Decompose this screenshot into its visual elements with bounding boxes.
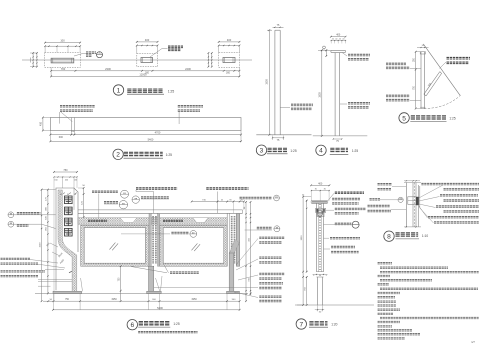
label B + circle2 circle3 (104, 196, 139, 209)
svg-text:1:20: 1:20 (331, 322, 337, 326)
marker node (398, 197, 403, 202)
title 7 (296, 319, 338, 329)
svg-text:50: 50 (332, 39, 334, 41)
glass leader text (131, 264, 199, 273)
tick row below column top (60, 193, 77, 196)
label F right + circle (240, 195, 280, 201)
dim stack left of box3 (208, 52, 213, 68)
svg-text:1500: 1500 (39, 242, 41, 248)
svg-text:700: 700 (61, 67, 66, 71)
leader label left drawing2 (59, 106, 95, 123)
leader label right drawing2 (178, 106, 203, 124)
bolt bracket under cap (316, 208, 334, 216)
R labels on curve (45, 242, 72, 273)
svg-text:1800: 1800 (301, 235, 303, 241)
dim 750 top column (53, 169, 78, 188)
svg-text:400: 400 (145, 38, 150, 42)
leader label box1 (74, 53, 96, 56)
detail marker A (97, 51, 103, 58)
svg-text:30: 30 (74, 194, 76, 196)
right labels drawing8 (419, 184, 479, 223)
svg-text:1:25: 1:25 (168, 90, 175, 94)
top label text D (136, 187, 177, 190)
node element verticals (406, 183, 420, 227)
column hatched strip + S curve (58, 190, 77, 292)
dims left drawing7 (297, 195, 311, 306)
cap leader (328, 193, 334, 201)
weld marker drawing4 (323, 46, 326, 50)
svg-text:12000: 12000 (139, 73, 147, 77)
title 2 (113, 149, 172, 159)
right post (227, 213, 240, 266)
node box2-dashed (137, 53, 158, 66)
svg-text:1950: 1950 (111, 298, 117, 301)
middle post (149, 213, 160, 266)
svg-text:400: 400 (318, 182, 323, 185)
dim stack left of box1 (30, 52, 38, 68)
base plate mid (147, 291, 162, 293)
dims left drawing4 (318, 49, 331, 136)
dim 700 mid legs (119, 265, 122, 302)
dim 1800 left drawing3 (265, 29, 272, 135)
dim row1 drawing2 (50, 131, 242, 142)
leader label drawing3 (280, 105, 313, 109)
leader verticals from top labels (99, 190, 218, 225)
svg-text:1/7: 1/7 (471, 340, 475, 344)
svg-text:1:25: 1:25 (290, 149, 296, 153)
ground drawing3 (256, 134, 311, 136)
rail body drawing2 (50, 118, 241, 131)
dim total drawing2 (50, 137, 242, 142)
dim 30 below drawing7 (315, 305, 324, 314)
label G right + circle (245, 226, 280, 232)
svg-text:100: 100 (60, 39, 65, 43)
dim 750 left drawing5 (414, 51, 421, 110)
glass mark P2 (192, 243, 201, 251)
dim 100 above box1 (44, 39, 81, 53)
leader labels left drawing5 (386, 64, 421, 100)
node box1-dashed (45, 53, 81, 68)
title 3 (256, 145, 297, 155)
label A + circle1 (92, 190, 129, 198)
brace bar (424, 72, 442, 96)
right diagonal wedge (229, 240, 239, 255)
swing arc dashed (424, 95, 461, 108)
svg-text:450: 450 (40, 121, 43, 126)
svg-text:6: 6 (130, 322, 134, 329)
svg-text:400: 400 (227, 38, 232, 42)
dim row under drawing1 (50, 67, 240, 77)
dim left drawing2 (40, 117, 51, 132)
dim 400 above box3 (218, 38, 241, 53)
svg-text:600: 600 (59, 136, 64, 139)
title 5 (399, 113, 456, 123)
cap plate drawing7 (311, 201, 328, 204)
dim 75 below drawing3 (272, 136, 284, 142)
svg-text:1:25: 1:25 (449, 117, 455, 121)
svg-text:750: 750 (63, 169, 68, 172)
dim 75 below drawing4 (333, 138, 343, 143)
dim row1 drawing6 (43, 294, 241, 311)
svg-text:1:25: 1:25 (173, 322, 179, 326)
post drawing4 (335, 53, 340, 136)
label in P2 + circle (121, 231, 197, 238)
svg-text:7: 7 (299, 321, 303, 328)
svg-text:5400: 5400 (148, 137, 154, 141)
column outline (54, 177, 78, 301)
index circle left2 (8, 221, 56, 228)
post drawing5 (420, 52, 425, 109)
svg-text:8: 8 (387, 234, 391, 241)
svg-text:1: 1 (117, 87, 121, 94)
dim stack right drawing6 (244, 201, 251, 302)
svg-text:50: 50 (335, 39, 337, 41)
ground drawing4 (313, 135, 368, 137)
svg-text:5400: 5400 (157, 306, 163, 310)
top label text E (206, 187, 248, 190)
panel P2 (160, 225, 227, 266)
dim stack left drawing6 (39, 189, 55, 302)
cap plate drawing4 (331, 50, 346, 52)
vertical sign text pillar (65, 196, 73, 236)
index circle left1 (8, 212, 56, 218)
label C mid (141, 198, 169, 200)
frame top double line (78, 210, 243, 213)
node box3-dashed (219, 53, 240, 68)
dim total under drawing1 (50, 73, 240, 78)
svg-text:1800: 1800 (265, 79, 268, 85)
dim 400 top drawing7 (310, 182, 330, 200)
svg-text:30: 30 (60, 194, 62, 196)
post drawing3 (275, 30, 280, 135)
dim above panel2 (191, 200, 245, 214)
post drawing7 ladder section (317, 203, 324, 271)
mid leader text column (154, 238, 285, 301)
node top ticks (404, 180, 421, 182)
joint 5/30/5 (313, 272, 328, 278)
notes text block (378, 263, 479, 344)
base plate left (53, 291, 82, 293)
svg-text:A: A (99, 51, 101, 55)
svg-text:30: 30 (315, 189, 317, 191)
dim 50/120 right of column (78, 185, 86, 218)
wire (22, 58, 252, 63)
base plate right (227, 291, 240, 293)
title 6 (127, 320, 197, 333)
leader label box2 (150, 47, 183, 57)
svg-text:50: 50 (339, 39, 341, 41)
left labels drawing8 (368, 184, 407, 211)
dim 400 above box2 (136, 38, 159, 53)
svg-text:1800: 1800 (319, 92, 322, 98)
svg-text:2400: 2400 (185, 67, 191, 71)
guy wire diagonal (423, 44, 460, 96)
svg-text:1:10: 1:10 (422, 234, 428, 238)
svg-text:15: 15 (241, 200, 243, 202)
post drawing7 lower section (318, 277, 323, 305)
svg-text:2: 2 (116, 152, 120, 159)
right leg (229, 253, 234, 291)
svg-text:3: 3 (260, 148, 264, 155)
svg-text:1:25: 1:25 (352, 149, 358, 153)
svg-text:2300: 2300 (105, 67, 111, 71)
svg-text:4: 4 (319, 148, 323, 155)
svg-text:300: 300 (226, 72, 231, 75)
title 8 (384, 231, 429, 241)
ground drawing7 (295, 304, 374, 306)
glass mark P1 (110, 243, 119, 251)
svg-text:30: 30 (324, 189, 326, 191)
ground line drawing6 (35, 293, 248, 295)
svg-text:1950: 1950 (191, 298, 197, 301)
title 4 (316, 145, 359, 155)
leader label right drawing5 (440, 58, 471, 68)
left bottom labels (1, 259, 73, 286)
node bottom ticks (404, 226, 421, 227)
right leader labels drawing7 (332, 193, 366, 214)
svg-text:5: 5 (402, 115, 406, 122)
top hatched band (78, 218, 227, 225)
leader diagonals to plates (81, 276, 162, 291)
hanging point label + circle (324, 221, 360, 228)
svg-text:1:25: 1:25 (166, 153, 173, 157)
dim total drawing6 (52, 306, 240, 311)
svg-text:90: 90 (67, 194, 69, 196)
dim 400 top drawing4 (330, 34, 346, 44)
panel P1 (81, 225, 149, 266)
svg-text:4700: 4700 (155, 131, 161, 135)
dim top drawing5 (417, 45, 429, 48)
svg-text:50: 50 (343, 39, 345, 41)
title 1 (113, 85, 174, 95)
leader labels right drawing4 (340, 53, 370, 108)
dim 75 top drawing3 (273, 24, 284, 28)
svg-text:400: 400 (336, 34, 341, 37)
middle leg (149, 266, 154, 291)
more right labels drawing7 (324, 238, 361, 252)
bracket detail (408, 197, 419, 205)
